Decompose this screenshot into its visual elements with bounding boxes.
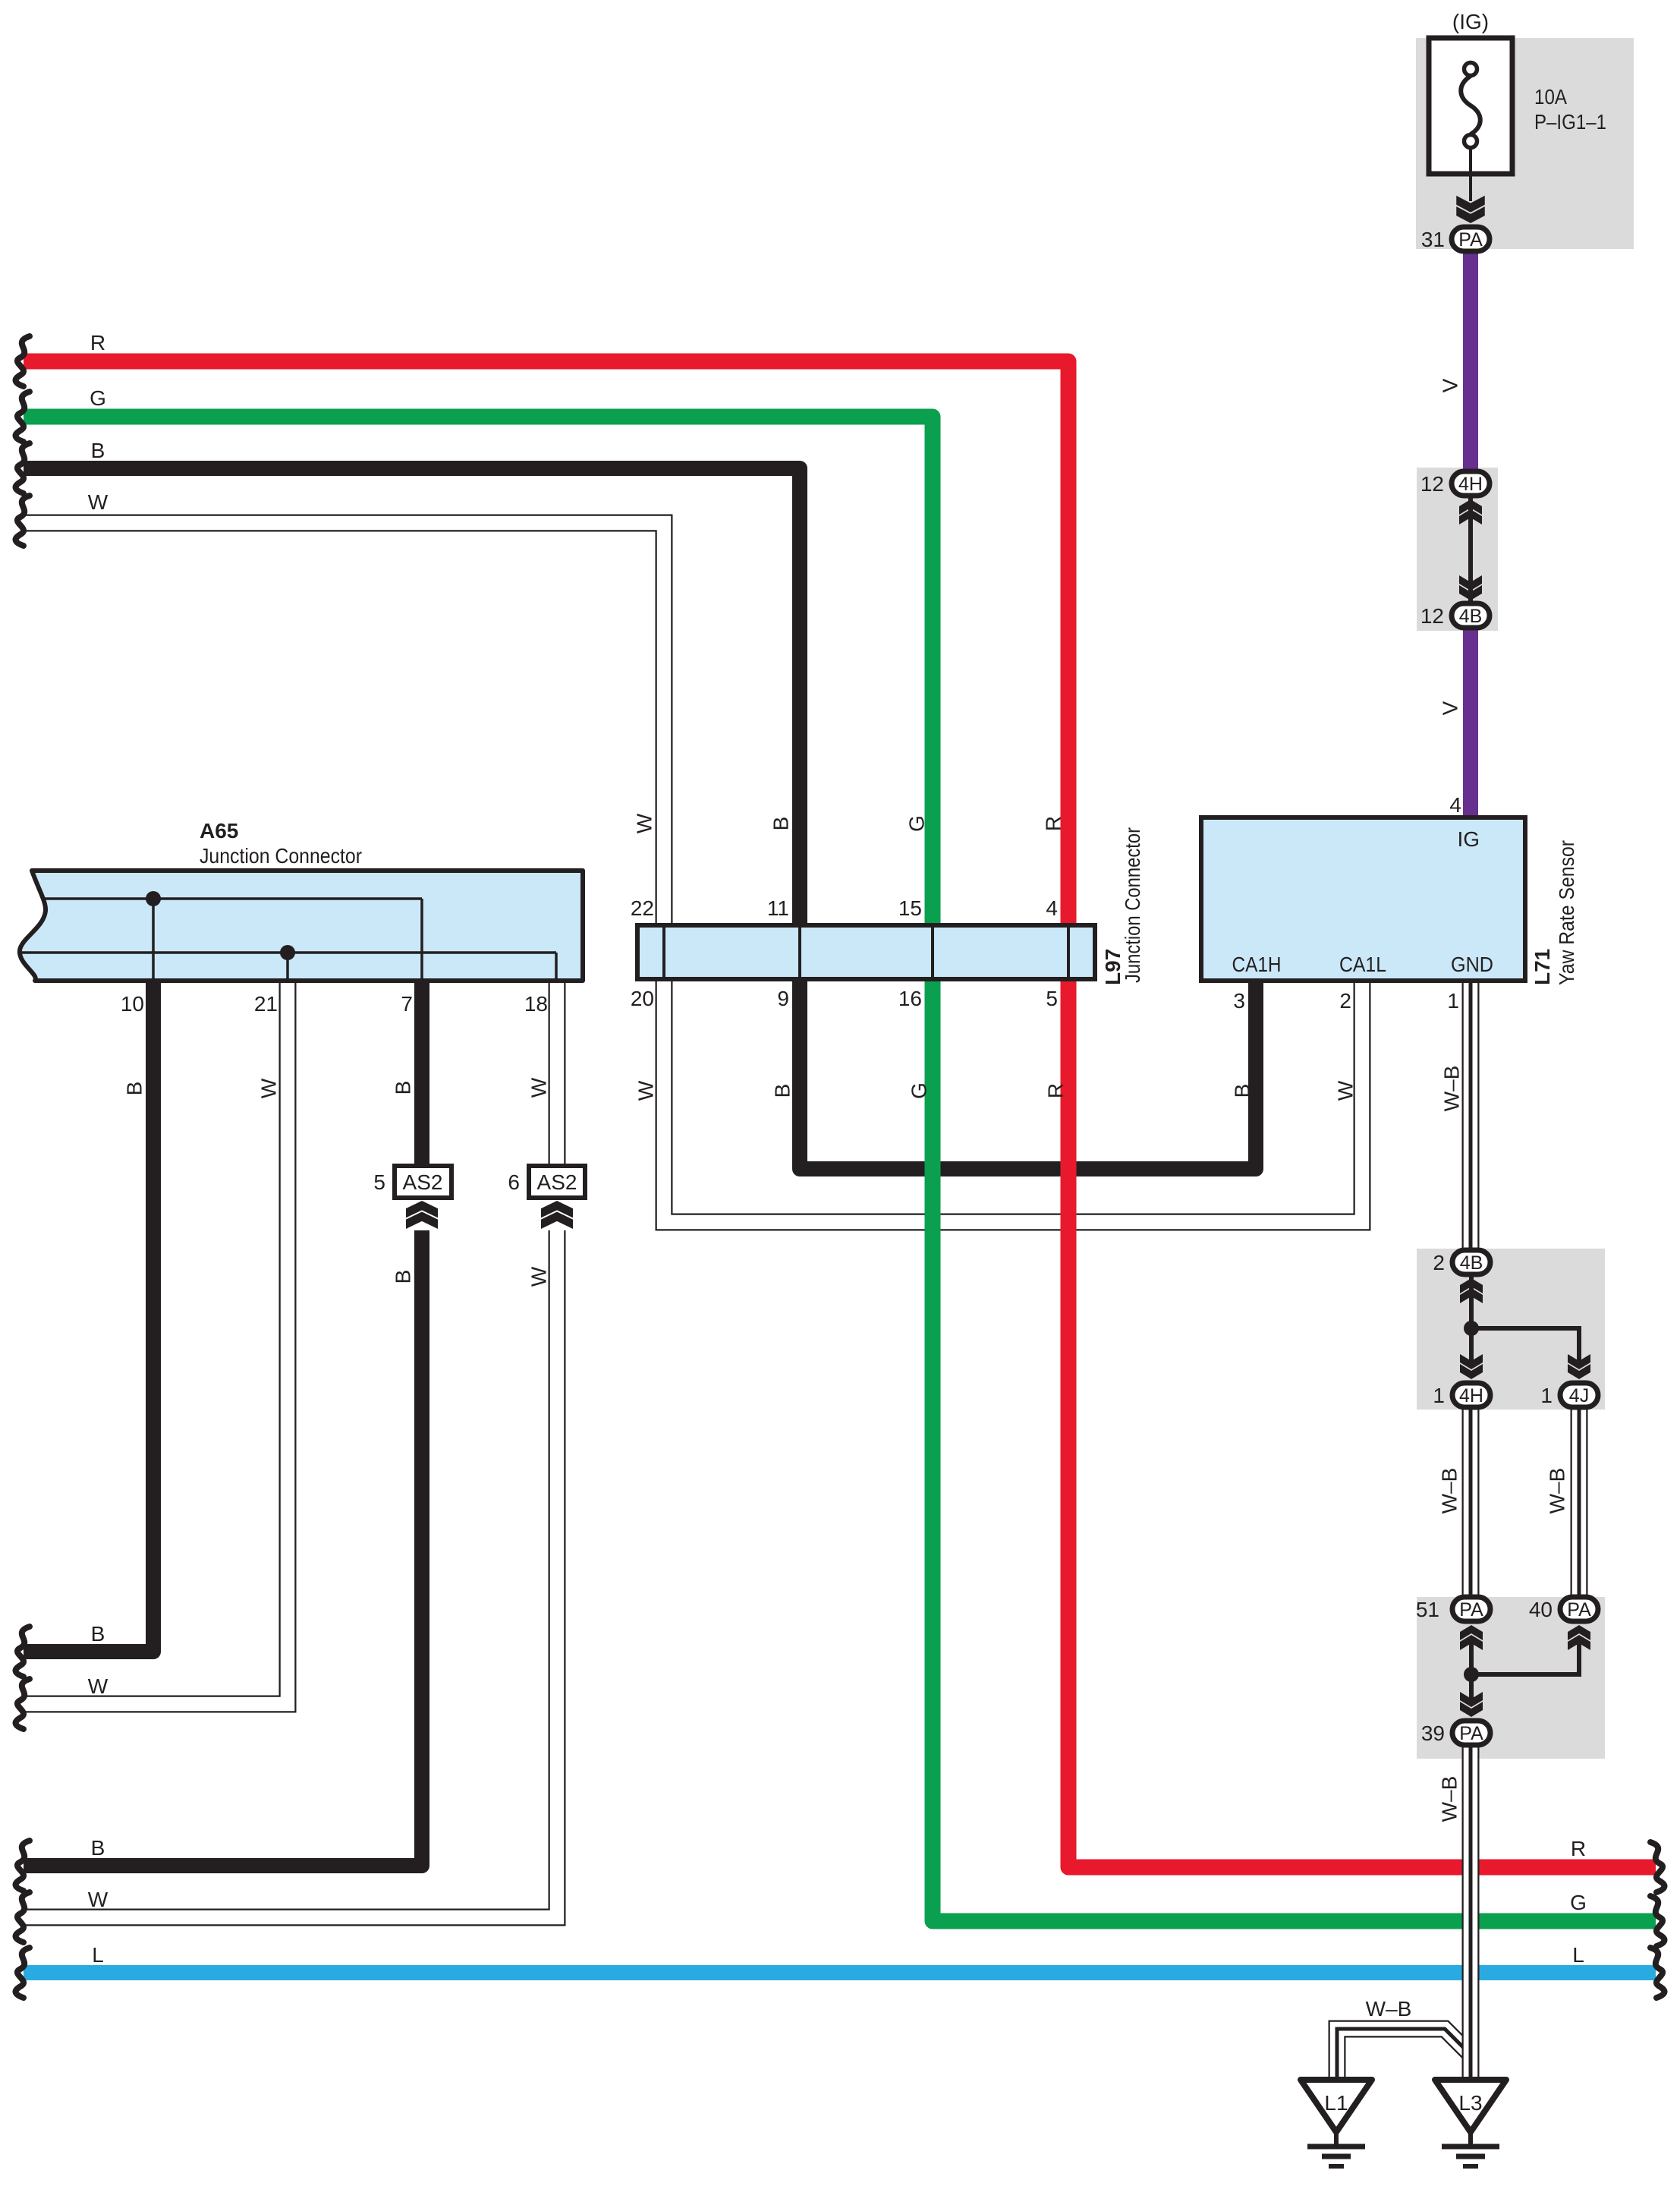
gray background connector 12 4H / 12 4B: [1417, 468, 1498, 631]
L97 internal joint pin 15-16: [931, 927, 934, 978]
svg-text:9: 9: [777, 987, 789, 1010]
svg-text:R: R: [1042, 816, 1065, 831]
svg-text:B: B: [392, 1081, 415, 1095]
wire W-B from connector 1 4J to connector 40 PA: [1571, 1409, 1588, 1596]
wire B from A65 pin 7 to junction AS2: [414, 976, 429, 1168]
svg-text:PA: PA: [1459, 1599, 1483, 1621]
chevron arrow up into 40 PA: [1568, 1625, 1590, 1650]
svg-text:AS2: AS2: [537, 1170, 577, 1194]
connector oval 39 PA: [1452, 1721, 1490, 1745]
wire R from left edge through L97 pins 4/5 to right edge: [24, 361, 1656, 1867]
A65 internal branch to pin 7: [420, 899, 423, 981]
svg-text:20: 20: [631, 987, 654, 1010]
svg-text:R: R: [1044, 1083, 1068, 1098]
A65 internal branch to pin 10: [152, 899, 155, 981]
svg-text:1: 1: [1433, 1384, 1445, 1407]
A65 junction dot on bus 1: [146, 891, 161, 906]
svg-text:CA1H: CA1H: [1232, 953, 1282, 976]
chevron arrow down into 39 PA: [1460, 1692, 1483, 1717]
wire B from left edge through L97 pins 11/9 to L71 CA1H pin 3: [24, 468, 1256, 1169]
connector oval 31 PA: [1452, 227, 1490, 251]
junction AS2 pin 5 chevron arrow: [406, 1201, 438, 1229]
link lead 40 PA branch to dot: [1471, 1639, 1579, 1674]
svg-text:4H: 4H: [1458, 474, 1483, 495]
svg-text:P–IG1–1: P–IG1–1: [1534, 110, 1606, 134]
fuse 10A P-IG1-1 body: [1429, 38, 1512, 174]
svg-text:A65: A65: [200, 819, 238, 843]
junction AS2 pin 5 box: [395, 1166, 451, 1198]
wire W from left edge through L97 pins 22/20 to L71 CA1L pin 2: [24, 523, 1362, 1222]
svg-text:Junction Connector: Junction Connector: [200, 844, 362, 868]
link lead 4B to junction dot: [1469, 1277, 1474, 1328]
yaw rate sensor L71 body: [1201, 817, 1525, 981]
torn edge mark wire B pin10 left: [16, 1627, 30, 1677]
chevron arrow up into 51 PA: [1460, 1625, 1483, 1650]
svg-text:4: 4: [1449, 793, 1461, 817]
svg-text:5: 5: [1046, 987, 1058, 1010]
svg-text:(IG): (IG): [1452, 10, 1489, 33]
L97 internal joint pin 4-5: [1067, 927, 1070, 978]
svg-text:W–B: W–B: [1438, 1776, 1461, 1822]
torn edge mark wire B pin5 left: [16, 1841, 30, 1891]
link junction dot: [1464, 1321, 1479, 1336]
wire L from left edge to right edge: [24, 1965, 1656, 1980]
wire W from A65 pin 18 to junction AS2: [549, 976, 566, 1168]
svg-text:B: B: [392, 1270, 415, 1284]
fuse element bottom circle: [1464, 135, 1477, 148]
gray background connector 2 4B / 1 4H / 1 4J: [1417, 1249, 1605, 1410]
svg-text:4: 4: [1046, 896, 1058, 920]
svg-text:B: B: [91, 439, 105, 462]
svg-text:B: B: [91, 1836, 105, 1860]
wire V from connector 12 4B to L71 IG pin 4: [1463, 627, 1478, 820]
wire W from A65 pin 21 to left edge: [24, 976, 288, 1704]
svg-text:V: V: [1439, 701, 1462, 715]
svg-text:G: G: [908, 1082, 931, 1099]
svg-text:W: W: [634, 1080, 658, 1101]
svg-text:L1: L1: [1324, 2091, 1348, 2115]
svg-text:L3: L3: [1458, 2091, 1482, 2115]
svg-text:B: B: [91, 1622, 105, 1646]
torn edge mark wire W pin21 left: [16, 1679, 30, 1729]
svg-text:18: 18: [524, 992, 548, 1016]
connector oval 51 PA: [1452, 1597, 1490, 1621]
torn edge mark wire G right: [1650, 1896, 1664, 1946]
svg-text:W: W: [88, 1674, 109, 1698]
svg-text:W: W: [1334, 1080, 1358, 1101]
wire W from junction AS2 pin 6 to left edge: [24, 1230, 557, 1917]
wire W-B branch to ground L1: [1337, 2029, 1472, 2083]
torn edge mark wire G left: [16, 392, 30, 442]
L97 internal joint pin 11-9: [798, 927, 801, 978]
svg-text:2: 2: [1433, 1251, 1445, 1274]
svg-text:21: 21: [254, 992, 278, 1016]
fuse block gray background (IG): [1416, 38, 1634, 249]
torn edge mark wire B left: [16, 443, 30, 493]
svg-text:39: 39: [1421, 1721, 1445, 1745]
svg-text:Junction Connector: Junction Connector: [1121, 827, 1144, 983]
svg-text:Yaw Rate Sensor: Yaw Rate Sensor: [1555, 840, 1578, 985]
svg-text:11: 11: [767, 896, 789, 920]
svg-text:31: 31: [1421, 228, 1445, 251]
wire W-B from L71 GND pin 1 to connector 2 4B: [1462, 979, 1480, 1249]
connector oval 12 4H: [1452, 471, 1490, 496]
svg-text:IG: IG: [1457, 827, 1480, 851]
svg-text:G: G: [905, 815, 929, 832]
ground symbol L1: [1301, 2080, 1372, 2166]
connector oval 1 4H: [1452, 1383, 1490, 1407]
svg-text:V: V: [1439, 378, 1462, 392]
torn edge mark wire W pin6 left: [16, 1892, 30, 1942]
svg-text:15: 15: [898, 896, 922, 920]
ground symbol L3: [1435, 2080, 1506, 2166]
torn edge mark wire L left: [16, 1948, 30, 1998]
A65 internal branch to pin 18: [555, 953, 558, 981]
svg-text:W: W: [527, 1077, 551, 1098]
svg-text:2: 2: [1339, 989, 1351, 1013]
link lead dot to 4H: [1469, 1328, 1474, 1366]
chevron arrow down into 1 4J: [1568, 1354, 1590, 1379]
wire W-B from connector 39 PA to ground L3: [1462, 1746, 1480, 2083]
gray background connector 51 PA / 40 PA / 39 PA: [1417, 1597, 1605, 1759]
A65 internal branch to pin 21: [286, 953, 289, 981]
svg-text:12: 12: [1420, 472, 1444, 496]
wire G from left edge through L97 pins 15/16 to right edge: [24, 417, 1656, 1921]
svg-text:L71: L71: [1531, 949, 1554, 985]
svg-text:W: W: [88, 490, 109, 514]
svg-text:W–B: W–B: [1440, 1066, 1464, 1112]
torn edge mark wire W left: [16, 496, 30, 546]
svg-text:10A: 10A: [1534, 85, 1567, 109]
svg-text:B: B: [771, 1084, 794, 1098]
L97 internal joint pin 22-20: [662, 927, 665, 978]
link lead dot to 39 PA: [1469, 1674, 1474, 1704]
connector oval 12 4B: [1452, 603, 1490, 628]
svg-text:4J: 4J: [1569, 1385, 1589, 1406]
wire V from fuse 31 PA to connector 12 4H: [1463, 252, 1478, 472]
svg-text:W–B: W–B: [1546, 1468, 1569, 1514]
A65 internal bus line 2: [21, 951, 556, 954]
svg-text:W–B: W–B: [1438, 1468, 1461, 1514]
svg-text:L: L: [92, 1943, 104, 1967]
torn edge mark wire L right: [1650, 1948, 1664, 1998]
fuse element top circle: [1464, 63, 1477, 76]
chevron arrow down into 4B: [1459, 575, 1482, 600]
fuse output lead: [1469, 147, 1472, 201]
svg-text:5: 5: [373, 1170, 385, 1194]
fuse element S-curve: [1461, 76, 1480, 134]
connector oval 2 4B: [1452, 1250, 1490, 1274]
connector oval 40 PA: [1560, 1597, 1598, 1621]
chevron arrow up into 2 4B: [1460, 1278, 1483, 1303]
svg-text:1: 1: [1540, 1384, 1553, 1407]
svg-text:B: B: [1231, 1084, 1254, 1098]
A65 internal bus line 1: [42, 897, 422, 900]
svg-text:6: 6: [508, 1170, 520, 1194]
junction connector A65 body: [20, 871, 583, 981]
svg-text:G: G: [1570, 1891, 1587, 1914]
link lead between 4H and 4B: [1468, 497, 1473, 602]
A65 junction dot on bus 2: [280, 945, 295, 960]
svg-text:R: R: [1571, 1837, 1586, 1860]
svg-text:W: W: [88, 1888, 109, 1911]
torn edge mark wire R right: [1650, 1842, 1664, 1892]
svg-text:12: 12: [1420, 604, 1444, 628]
svg-text:22: 22: [631, 896, 654, 920]
svg-text:W: W: [633, 813, 656, 833]
svg-text:B: B: [769, 817, 793, 831]
wire B from A65 pin 10 to left edge: [24, 976, 153, 1652]
link lead 51 PA to junction dot: [1469, 1639, 1474, 1674]
link lead dot to 4J branch: [1471, 1328, 1579, 1366]
fuse output chevron arrow: [1456, 196, 1485, 223]
junction AS2 pin 6 box: [529, 1166, 585, 1198]
svg-text:R: R: [90, 331, 105, 354]
svg-text:1: 1: [1447, 989, 1459, 1013]
svg-text:W: W: [527, 1266, 551, 1287]
wire B from junction AS2 pin 5 to left edge: [24, 1230, 422, 1866]
svg-text:7: 7: [401, 992, 413, 1016]
svg-text:G: G: [90, 386, 106, 410]
svg-text:4B: 4B: [1459, 606, 1483, 627]
svg-text:10: 10: [121, 992, 144, 1016]
svg-text:B: B: [123, 1082, 146, 1096]
svg-text:3: 3: [1233, 989, 1245, 1013]
svg-text:CA1L: CA1L: [1339, 953, 1386, 976]
link junction dot lower: [1464, 1667, 1479, 1682]
chevron arrow down into 1 4H: [1460, 1354, 1483, 1379]
junction connector L97 body: [637, 925, 1095, 979]
svg-text:AS2: AS2: [403, 1170, 443, 1194]
svg-text:51: 51: [1416, 1598, 1439, 1621]
svg-text:4H: 4H: [1459, 1385, 1483, 1406]
torn edge mark wire R left: [16, 336, 30, 386]
svg-text:GND: GND: [1451, 953, 1493, 976]
svg-text:PA: PA: [1459, 1723, 1483, 1744]
svg-text:W–B: W–B: [1366, 1997, 1412, 2021]
chevron arrow up into 4H: [1459, 499, 1482, 524]
wire W-B from connector 1 4H to connector 51 PA: [1462, 1409, 1480, 1596]
junction AS2 pin 6 chevron arrow: [541, 1201, 573, 1229]
svg-text:16: 16: [898, 987, 922, 1010]
svg-text:40: 40: [1529, 1598, 1553, 1621]
svg-text:W: W: [257, 1078, 281, 1098]
svg-text:PA: PA: [1567, 1599, 1591, 1621]
svg-text:L: L: [1572, 1943, 1584, 1967]
svg-text:PA: PA: [1458, 229, 1483, 250]
connector oval 1 4J: [1560, 1383, 1598, 1407]
svg-text:4B: 4B: [1460, 1252, 1483, 1274]
